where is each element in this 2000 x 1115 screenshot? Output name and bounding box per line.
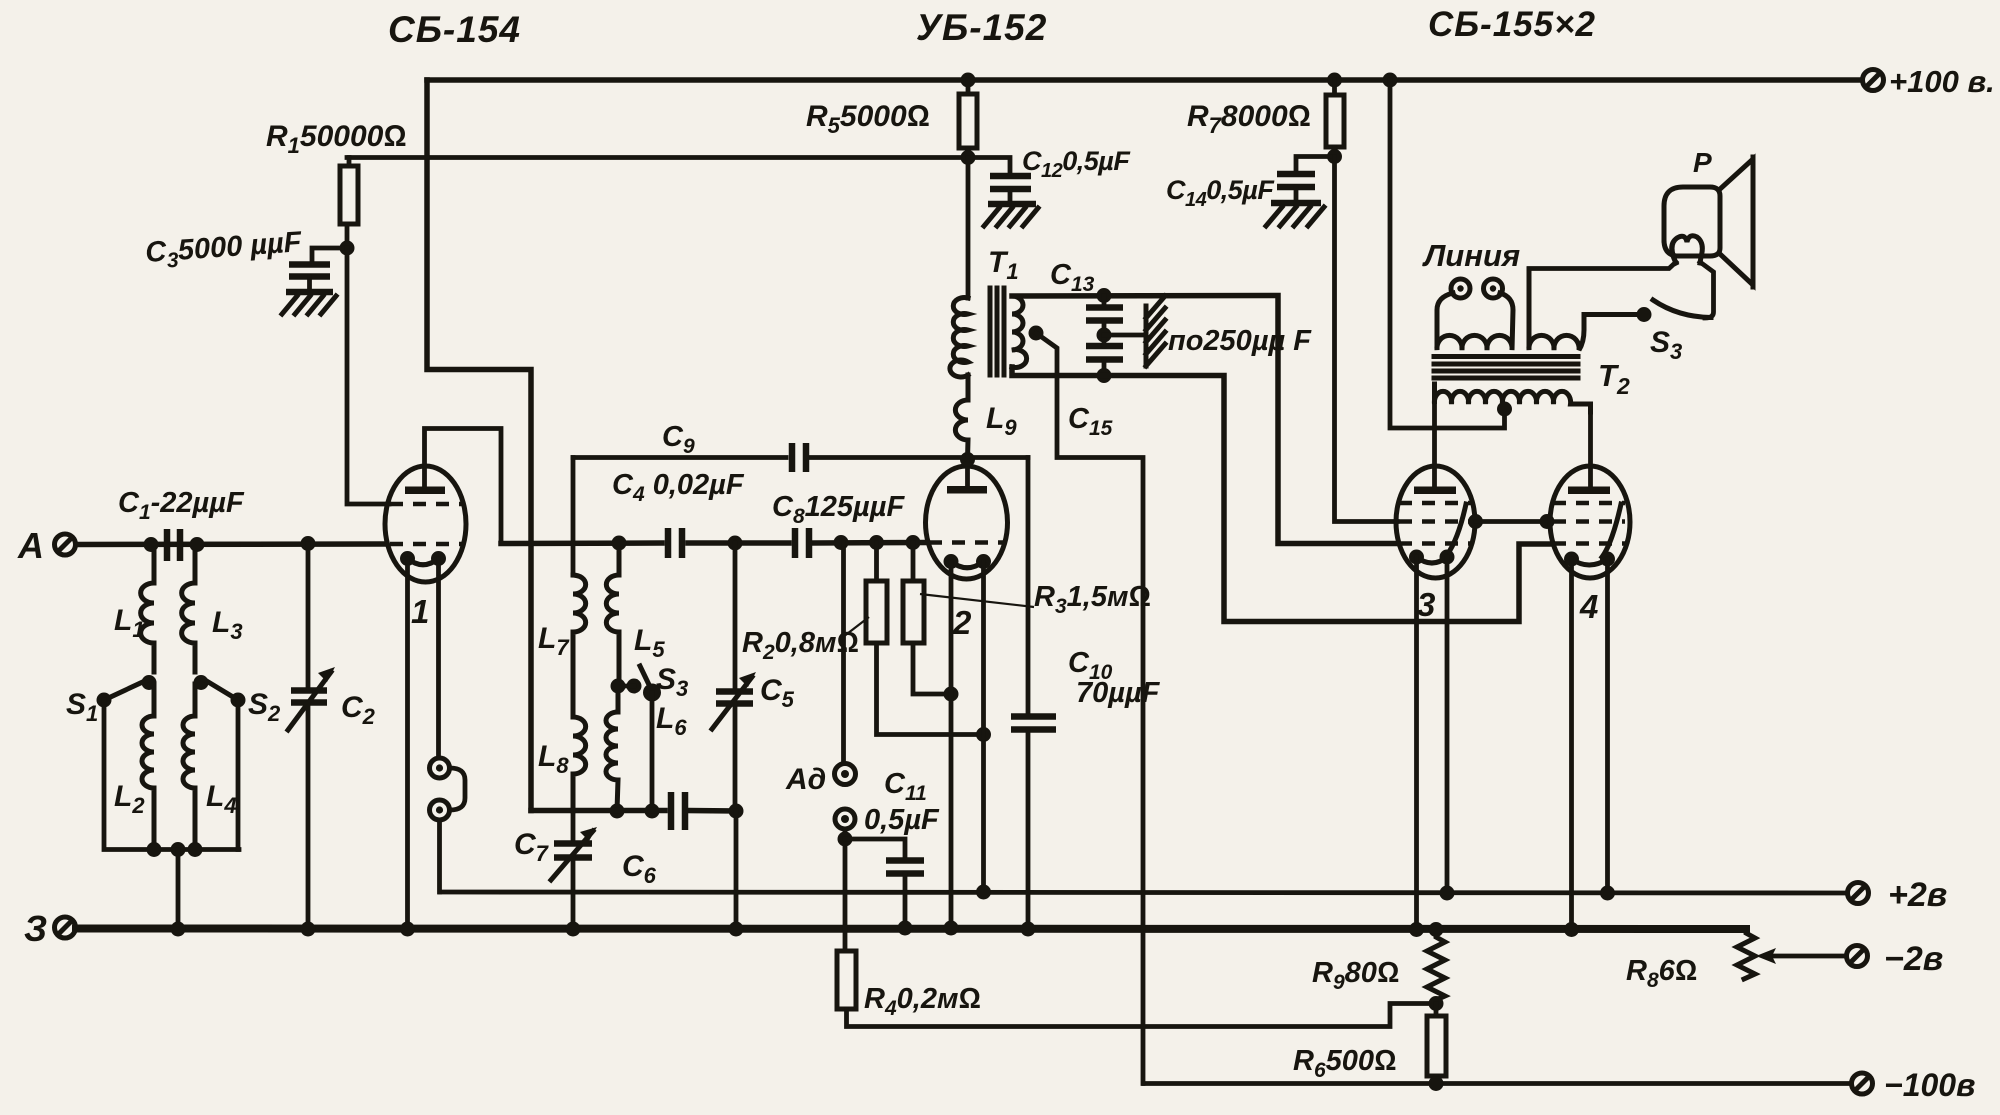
wire T1 secondary bottom to V4 grid riser (1012, 367, 1551, 622)
svg-text:С140,5µF: С140,5µF (1166, 175, 1275, 211)
node A/L3 (190, 537, 205, 552)
node grid line / Ad (834, 535, 849, 550)
wire speaker right down to switch (1700, 262, 1714, 318)
svg-text:3: 3 (1417, 586, 1435, 623)
tube V2 grid dashes (929, 540, 1003, 545)
capacitor C13 (1050, 259, 1123, 335)
wire tank bottom line (531, 808, 736, 814)
node C13 top (1097, 288, 1112, 303)
node C10 bottom / Z line (1021, 922, 1036, 937)
svg-text:L2: L2 (114, 780, 145, 818)
node V3 grid2 right (1468, 514, 1483, 529)
svg-text:−2в: −2в (1884, 940, 1943, 978)
terminal -100v (1852, 1067, 1976, 1103)
node R9 top on Z line (1429, 922, 1444, 937)
wire R1 to tube1 grid (347, 248, 389, 504)
capacitor C8 (772, 491, 905, 558)
svg-text:С13: С13 (1050, 259, 1095, 296)
tube V2 anode (947, 486, 987, 494)
svg-text:P: P (1693, 147, 1712, 178)
terminal -2v with arrow to R8 (1847, 940, 1944, 978)
node C13/C15 mid (1097, 328, 1112, 343)
tube V4 cathode (1564, 552, 1579, 567)
svg-text:S3: S3 (1650, 326, 1682, 364)
wire R7 to V3 screen grid (1335, 157, 1398, 522)
terminal Ad (785, 763, 856, 796)
switch S2 (194, 675, 282, 726)
svg-text:С7: С7 (514, 828, 550, 866)
svg-text:С11: С11 (884, 768, 927, 805)
wire speaker left to T2 (1529, 262, 1676, 269)
node C6 right / C5 bottom (729, 804, 744, 819)
svg-text:по250µµ F: по250µµ F (1168, 325, 1312, 357)
node speaker switch (1637, 307, 1652, 322)
svg-text:С120,5µF: С120,5µF (1022, 146, 1131, 182)
node R1/C3 (340, 241, 355, 256)
node R5 bottom (961, 150, 976, 165)
node S3 leg / tank bottom (645, 804, 660, 819)
capacitor C9 and its line (573, 421, 1028, 472)
node V4 grid2 left (1540, 514, 1555, 529)
wire +2v line (440, 892, 1847, 893)
capacitor C10 (1011, 647, 1161, 929)
node V2 cathode / +2v line (976, 885, 991, 900)
tube V3 cathode (1409, 550, 1424, 565)
resistor R5 (806, 80, 977, 158)
capacitor C5 (variable) (712, 543, 795, 811)
wire +100 feed down-left to tank bottom (427, 80, 531, 811)
svg-text:СБ-154: СБ-154 (388, 9, 521, 50)
capacitor C12 (968, 146, 1131, 203)
wire V2 cathode right to +2v (981, 562, 986, 893)
svg-text:Линия: Линия (1422, 238, 1520, 273)
wire V4 cathode left to Z (1569, 559, 1574, 930)
transformer T2 line primary left (1437, 293, 1513, 350)
wire V1 cathode to Z (405, 559, 410, 930)
svg-text:4: 4 (1579, 588, 1598, 625)
wire S1 down leg (104, 700, 239, 850)
svg-text:R78000Ω: R78000Ω (1187, 100, 1311, 138)
node T1 secondary tap (1029, 326, 1044, 341)
node C7 bottom / Z line (566, 922, 581, 937)
terminal +2v (1848, 876, 1948, 914)
transformer T2 secondary (1434, 384, 1590, 412)
capacitor C7 (variable trimmer) (514, 811, 597, 929)
trimmer chassis bar (po 250uuF) (1146, 296, 1312, 366)
wire tank bottom to Z line (176, 850, 181, 930)
capacitor C4 (612, 469, 745, 558)
tube V1 anode (405, 487, 445, 495)
speaker P horn (1719, 159, 1753, 285)
svg-text:R980Ω: R980Ω (1312, 957, 1399, 994)
SECTION: titles (388, 5, 1596, 50)
svg-text:L5: L5 (634, 624, 665, 662)
tube V3 grid dashes (1399, 501, 1471, 506)
svg-text:С8125µµF: С8125µµF (772, 491, 905, 528)
wire Z thick line (-2v bus) (76, 925, 1746, 934)
terminal C11 jack (835, 809, 855, 829)
inductor L2 (142, 684, 154, 850)
inductor L8 (573, 713, 586, 811)
inductor L9 (955, 375, 968, 460)
wire main line V1 anode to V2 grid (501, 543, 927, 544)
transformer T2 line winding terminals (1422, 238, 1520, 298)
node V2 anode / L9 (960, 452, 975, 467)
tube V1 envelope (385, 466, 466, 582)
node V3 cathode / +2v line (1440, 886, 1455, 901)
jack shorting link (450, 768, 465, 810)
node A/L1 (144, 537, 159, 552)
capacitor C2 (variable) (288, 544, 376, 930)
tube V1 cathode (400, 551, 415, 566)
tube V3 anode (1414, 487, 1456, 495)
SECTION: bottomright (1293, 922, 1755, 1091)
capacitor C15 (1068, 335, 1123, 440)
transformer T1 primary (950, 298, 968, 378)
node V1 cathode / Z line (400, 922, 415, 937)
svg-text:−100в: −100в (1884, 1067, 1975, 1103)
inductor L3 (182, 545, 195, 673)
svg-text:S3: S3 (656, 663, 688, 701)
SECTION: tank (501, 421, 1028, 937)
node V2 cathode / Z line (944, 921, 959, 936)
tube V2 envelope (926, 466, 1008, 579)
svg-text:S2: S2 (248, 688, 281, 726)
tube V4 envelope (1550, 466, 1630, 578)
svg-text:2: 2 (952, 604, 972, 641)
wire +100v top rail (427, 77, 1862, 83)
SECTION: t1c13 (806, 80, 1551, 1084)
wire C9 left leg down to L7 (571, 458, 576, 574)
resistor R9 (zigzag) (1427, 930, 1445, 1004)
svg-text:70µµF: 70µµF (1076, 677, 1161, 709)
capacitor C14 (1166, 157, 1335, 212)
ground (C14) (1266, 203, 1324, 226)
ground (C12) (984, 204, 1038, 226)
SECTION: tube1 (385, 429, 501, 937)
svg-text:С4 0,02µF: С4 0,02µF (612, 469, 745, 506)
inductor L1 (141, 545, 154, 673)
inductor L6 (606, 686, 618, 811)
svg-text:А: А (17, 525, 44, 566)
svg-text:З: З (24, 908, 47, 949)
node C15 bottom (1097, 368, 1112, 383)
svg-text:L3: L3 (212, 606, 243, 644)
SECTION: right (1166, 80, 1753, 937)
inductor L5 (606, 543, 619, 686)
inductor L4 (183, 684, 195, 850)
wire A input line (76, 541, 386, 547)
node V4 cathode / +2v line (1600, 886, 1615, 901)
node C2 / Z line (301, 922, 316, 937)
wire -2v arrow line (1765, 954, 1846, 959)
svg-text:+2в: +2в (1888, 876, 1947, 914)
wire R1-R5 line (347, 155, 968, 160)
svg-text:L6: L6 (656, 702, 687, 740)
terminal +100v (1863, 64, 1995, 99)
svg-text:R40,2мΩ: R40,2мΩ (864, 983, 981, 1020)
node L5 top (612, 536, 627, 551)
node L6 bottom / tank bottom (610, 804, 625, 819)
svg-text:0,5µF: 0,5µF (864, 804, 940, 836)
node R7 bottom (1327, 149, 1342, 164)
wire T2 secondary left to V3 anode (1432, 404, 1437, 486)
wire anode junction to C10 (1026, 458, 1031, 715)
svg-text:R31,5мΩ: R31,5мΩ (1034, 581, 1151, 618)
node tank bottom center (171, 842, 186, 857)
capacitor C3 (144, 226, 347, 291)
speaker P driver (1664, 187, 1720, 256)
svg-text:С5: С5 (760, 674, 795, 712)
wire R5 to T1 primary (966, 158, 971, 299)
wire V2 cathode left to Z (949, 562, 954, 929)
wire S3 to tank bottom (650, 693, 655, 812)
resistor R8 (zigzag rheostat) (1737, 929, 1755, 979)
jack upper (430, 758, 450, 778)
node R9/R6 junction (1429, 996, 1444, 1011)
node C4/C5 junction (728, 536, 743, 551)
node A/C2 (301, 536, 316, 551)
transformer T2 line primary right (1529, 269, 1638, 350)
transformer T1 core (990, 288, 1004, 375)
terminal Z (ground input) (24, 908, 76, 949)
node V3 cathode / Z line (1409, 922, 1424, 937)
resistor R4 (837, 951, 1436, 1027)
inductor L7 (573, 575, 586, 713)
wire +100 to T2 centre tap (1390, 80, 1505, 428)
svg-text:R55000Ω: R55000Ω (806, 100, 930, 138)
jack lower (430, 800, 450, 820)
tube V3 envelope (1396, 466, 1475, 578)
resistor R3 (903, 543, 1151, 695)
node R2 bottom / V2 cathode (976, 727, 991, 742)
tube V4 grid-cathode curve (1602, 504, 1621, 557)
capacitor C11 (845, 768, 940, 928)
svg-text:L4: L4 (206, 780, 237, 818)
node L4 bottom (188, 842, 203, 857)
svg-text:УБ-152: УБ-152 (916, 7, 1047, 48)
svg-text:R150000Ω: R150000Ω (266, 120, 406, 158)
wire -100v line (1144, 1081, 1851, 1086)
svg-text:С35000 µµF: С35000 µµF (144, 226, 304, 274)
node V4 cathode / Z line (1564, 922, 1579, 937)
capacitor C6 (622, 792, 685, 888)
wire V3 cathode left to Z (1414, 557, 1419, 930)
svg-text:L7: L7 (538, 622, 570, 660)
svg-text:L9: L9 (986, 402, 1017, 440)
svg-text:СБ-155×2: СБ-155×2 (1428, 5, 1596, 44)
svg-text:С15: С15 (1068, 403, 1113, 440)
resistor R2 (742, 543, 984, 735)
tube V4 anode (1568, 487, 1610, 495)
resistor R1 (266, 120, 406, 248)
svg-text:R20,8мΩ: R20,8мΩ (742, 627, 859, 664)
node tank leg / Z line (171, 922, 186, 937)
node grid line / R3 (906, 535, 921, 550)
wire V4 cathode right to +2v (1605, 559, 1610, 893)
wire C11 terminal down to R4 (843, 829, 848, 951)
svg-text:С1-22µµF: С1-22µµF (118, 487, 245, 524)
switch S1 (66, 675, 157, 726)
svg-text:С9: С9 (662, 421, 695, 458)
tube V1 control grid dashes (390, 542, 462, 547)
svg-text:R86Ω: R86Ω (1626, 955, 1697, 992)
svg-text:1: 1 (411, 593, 429, 630)
wire T1 secondary top to C13 and V3 grid (1012, 296, 1397, 544)
node +100/R7 (1327, 73, 1342, 88)
wire C5/C6 junction down to Z (734, 811, 739, 929)
tube V1 screen grid dashes (390, 502, 462, 507)
transformer T1 secondary (1012, 296, 1027, 368)
resistor R7 (1187, 80, 1344, 157)
wire V3 grid to V4 grid (1476, 519, 1552, 524)
node T2 secondary tap (1497, 402, 1512, 417)
wire V1 cathode to jacks (436, 559, 441, 759)
node C11 branch (838, 832, 853, 847)
tube V3 grid-cathode curve (1447, 504, 1466, 555)
switch S3 (wave band) (611, 663, 689, 702)
node grid line / R2 (869, 535, 884, 550)
wire C13/C15 mid to trimmer bar (1104, 333, 1146, 338)
capacitor C1 (118, 487, 245, 561)
node R6 bottom on -100v (1429, 1076, 1444, 1091)
tube V2 cathode (944, 554, 959, 569)
resistor R6 (1293, 1004, 1446, 1084)
svg-text:+100 в.: +100 в. (1889, 64, 1995, 99)
wire T2 secondary right to V4 anode (1588, 412, 1593, 486)
SECTION: leftinput (66, 120, 406, 937)
svg-text:T2: T2 (1598, 358, 1630, 399)
SECTION: middle (742, 452, 1436, 1027)
transformer T2 core (1434, 357, 1578, 379)
ground (C3) (282, 292, 336, 314)
wire grid node to Ad terminal (841, 543, 846, 764)
wire jack to +2v (437, 820, 442, 892)
svg-text:T1: T1 (988, 246, 1019, 284)
svg-text:L8: L8 (538, 740, 569, 778)
node +100/T2 feed (1383, 73, 1398, 88)
svg-text:С2: С2 (341, 691, 376, 729)
terminal A (17, 525, 76, 566)
wire tap to -100v rail (1036, 333, 1143, 1084)
node C6 leg / Z line (729, 922, 744, 937)
wire S2 down leg (236, 700, 241, 850)
svg-text:С6: С6 (622, 850, 657, 888)
svg-text:R6500Ω: R6500Ω (1293, 1045, 1396, 1082)
svg-text:Ад: Ад (785, 763, 826, 796)
speaker P voice coil loop (1672, 236, 1703, 263)
node +100/R5 (961, 73, 976, 88)
wire V3 cathode right to +2v (1445, 557, 1450, 893)
node C11 bottom / Z line (898, 921, 913, 936)
switch S3 (speaker) blade (1653, 300, 1711, 318)
tube V4 grid dashes (1553, 501, 1625, 506)
svg-text:S1: S1 (66, 688, 98, 726)
node R3 bottom / V2 cathode (944, 687, 959, 702)
node L2 bottom (147, 842, 162, 857)
